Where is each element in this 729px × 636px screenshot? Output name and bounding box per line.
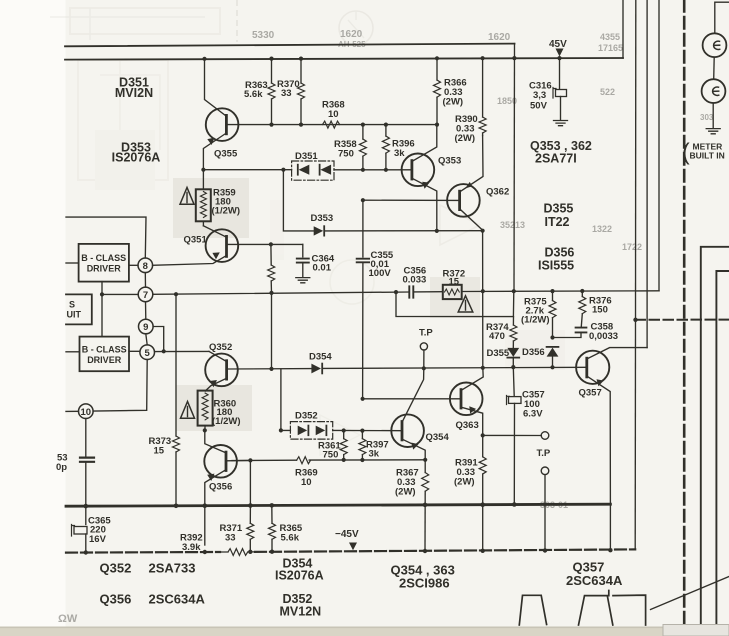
svg-text:−45V: −45V [335,529,359,540]
transistor Q353 [402,154,435,187]
svg-text:Q354: Q354 [426,432,450,443]
transistor Q354 [391,414,424,447]
svg-text:9: 9 [143,322,148,333]
capacitor C364 [302,244,304,256]
resistor R396 [385,125,387,136]
marker patch around R359 [173,178,249,238]
svg-text:(2W): (2W) [455,133,476,144]
svg-text:10: 10 [81,407,92,418]
right frame box outer [701,247,729,636]
svg-text:DRIVER: DRIVER [87,264,122,274]
wire Q362 base y=200.4 [363,199,460,201]
scan bottom-right box [663,625,729,636]
ground below C316 [554,121,568,126]
svg-text:3k: 3k [369,449,380,460]
svg-text:T.P: T.P [537,448,551,459]
wire dashed stub y=319.8 [636,319,729,321]
scan bottom strip [0,628,680,636]
test point T.P (right upper) [541,432,549,440]
diode pair D352 (boxed) [290,422,332,440]
svg-text:D355: D355 [544,202,574,216]
wire pin7 stub left [101,282,103,337]
svg-text:Q363: Q363 [456,420,479,431]
svg-text:(2W): (2W) [443,97,464,108]
wire main row y=368 [228,367,587,369]
svg-text:B - CLASS: B - CLASS [81,253,126,263]
resistor R367 [424,460,426,473]
wire dashed bottom rail [66,549,635,552]
ground below lamps [706,129,720,134]
capacitor C355 [362,200,364,257]
svg-text:4355: 4355 [600,32,620,42]
wire D351 to Q353 [334,169,412,171]
svg-text:B - CLASS: B - CLASS [82,345,127,355]
diode D354 [311,364,321,374]
transistor Q351 [206,229,239,262]
svg-text:1722: 1722 [622,242,642,252]
wire Q356 column below rail [204,506,206,545]
wire vertical x=514.5 from rail1 down to mid rail [513,44,516,292]
wire x=482.6 column down to main row [482,231,484,368]
svg-text:D355: D355 [487,348,510,359]
svg-text:10: 10 [301,477,312,488]
svg-text:D356: D356 [545,246,575,260]
capacitor C316 [559,58,561,88]
wire right column x=647 [646,0,648,348]
capacitor C356 (inline) [409,286,413,297]
svg-text:Q362: Q362 [486,187,509,198]
resistor R397 [361,431,363,439]
wire pin8 riser to top-left [66,217,146,258]
capacitor C358 [576,328,587,333]
svg-text:5330: 5330 [252,30,275,41]
svg-text:Q351: Q351 [184,235,208,246]
wire top rail 1 [65,44,515,47]
wire dashed rail corner up x=635 [634,320,636,550]
node dots on rail2 [202,56,561,61]
node junction below R360 [203,428,207,432]
svg-text:5.6k: 5.6k [244,89,263,100]
pin circle 10 [79,404,94,419]
warning triangle (R359) [180,188,194,205]
svg-text:Q353: Q353 [438,156,461,167]
svg-text:Q352: Q352 [209,342,232,353]
svg-text:470: 470 [489,331,505,342]
svg-text:(2W): (2W) [395,487,416,498]
svg-text:3.9k: 3.9k [182,542,201,553]
wire bottom heavy rail [66,504,610,506]
wire box1 left [66,262,79,264]
dashed separator vertical [683,0,686,626]
45V arrow [556,49,564,57]
wire Q355 base rail y=124.6 [226,124,437,126]
transistor Q355 [206,108,239,141]
svg-text:2SA77I: 2SA77I [535,152,577,166]
svg-text:MV12N: MV12N [280,605,322,619]
wire corner up x=623 [622,0,624,58]
svg-text:Q355: Q355 [214,149,238,160]
resistor R363 [271,59,273,83]
node junction (514.5,58.2) [512,56,516,60]
svg-text:6.3V: 6.3V [523,409,543,420]
svg-text:IS2076A: IS2076A [275,569,324,583]
wire D353 row y=230.9 [283,170,482,231]
svg-text:D353: D353 [311,213,334,224]
wire top rail 2 [65,58,623,60]
svg-text:150: 150 [592,305,608,316]
svg-text:8: 8 [143,261,148,272]
wire pin9 jog [153,327,164,352]
svg-text:D352: D352 [295,411,318,422]
svg-text:2SCI986: 2SCI986 [399,576,450,591]
wire emitter row y=460 [232,459,425,462]
svg-text:0,0033: 0,0033 [589,331,618,342]
svg-text:33: 33 [281,88,292,99]
svg-text:D351: D351 [295,151,318,162]
svg-text:10: 10 [328,109,339,120]
resistor R390 [482,58,484,117]
svg-text:35213: 35213 [500,220,525,230]
svg-text:D356: D356 [522,347,545,358]
resistor R368 (inline) [323,121,340,128]
resistor R359 (boxed) [202,170,204,190]
resistor R376 [581,291,583,297]
svg-text:7: 7 [143,290,148,301]
marker patch around R372 [430,277,480,318]
box B-CLASS DRIVER (upper) [79,244,129,282]
resistor R374 [512,317,514,325]
resistor R392 (inline on dashed rail) [220,549,255,556]
svg-text:15: 15 [154,446,165,457]
resistor R391 [482,435,484,456]
svg-text:Q357: Q357 [579,388,602,399]
wire pin8 row [129,264,138,266]
diode D356 [547,346,559,348]
resistor R364 [270,244,272,265]
test point T.P (upper) [420,343,427,350]
wire T.P row y=435.4 [483,434,542,436]
wire bypass loop under C356/R372 [396,291,514,316]
wire rail end drop [609,504,611,550]
resistor R366 [436,58,438,80]
resistor R370 [300,59,302,83]
resistor R358 [362,125,364,139]
-45V arrow [349,543,357,551]
svg-text:45V: 45V [549,39,567,50]
wire pin5 row [129,350,209,352]
resistor R365 [271,505,273,523]
diode D353 [314,226,324,235]
svg-text:(1/2W): (1/2W) [521,315,550,326]
wire pin10 row [66,410,79,412]
svg-text:17165: 17165 [598,43,623,53]
wire pin ladder verticals [93,273,147,412]
wire D351 row y=169.7 [203,169,291,171]
resistor R360 (boxed) [198,391,213,426]
svg-text:750: 750 [338,149,354,160]
svg-text:ΩW: ΩW [58,613,78,625]
svg-text:2SA733: 2SA733 [149,561,196,576]
wire Q363 base row y=398.8 [363,398,461,400]
lamp PL2 [702,79,726,103]
warning triangle (R372) [458,296,473,312]
svg-text:2SC634A: 2SC634A [566,573,623,588]
capacitor C365 [85,506,87,524]
wire right column x=659 [658,0,660,291]
wire mid rail (pin7 net) [102,292,409,294]
transistor Q362 [447,184,480,217]
svg-text:ISI555: ISI555 [538,259,574,273]
svg-text:100V: 100V [369,268,392,279]
ghost bleed-through shapes (decorative) [70,8,220,34]
svg-text:(2W): (2W) [454,477,475,488]
svg-text:2SC634A: 2SC634A [149,592,206,607]
svg-text:15: 15 [449,276,460,287]
svg-text:750: 750 [323,450,339,461]
pointer line [651,577,729,610]
svg-text:0.033: 0.033 [403,275,427,286]
test point T.P (right lower) [541,467,549,475]
wire right column x=635.8 upper [635,0,637,320]
wire R363 bus x=271.5 (mid segments) [271,293,273,369]
box B-CLASS DRIVER (lower) [80,337,130,372]
svg-text:3,3: 3,3 [533,90,546,101]
wire D352 row y=430.5 [281,369,402,431]
svg-text:MVI2N: MVI2N [115,86,153,100]
ghost dashed line top [236,0,238,42]
svg-text:1322: 1322 [592,224,612,234]
transistor Q352 [205,354,238,387]
capacitor C357 [512,367,515,396]
svg-text:DRIVER: DRIVER [87,355,122,365]
capacitor C353 (clipped) [85,419,87,457]
svg-text:T.P: T.P [419,328,433,339]
left white margin [0,0,66,636]
right frame box inner [716,271,729,636]
svg-text:522: 522 [600,87,615,97]
svg-text:0p: 0p [56,462,67,473]
svg-text:Q356: Q356 [100,592,132,607]
svg-text:IT22: IT22 [545,215,570,229]
transistor Q363 [450,383,483,416]
svg-text:UIT: UIT [67,310,82,320]
diode D355 [507,348,519,357]
pin circle 8 [138,258,153,273]
lamp PL1 [715,2,729,33]
transistor Q357 [576,351,609,384]
svg-text:303: 303 [700,113,714,122]
comb connector bottom [519,595,546,625]
pin circle 5 [140,345,155,360]
svg-text:50V: 50V [530,101,548,112]
warning triangle (R360) [181,402,195,419]
svg-text:5.6k: 5.6k [281,533,300,544]
svg-text:3k: 3k [394,148,405,159]
svg-text:5: 5 [145,348,151,359]
resistor R371 [249,460,251,523]
wire Q351 base y=244.4 [227,243,303,245]
diode pair D351 (boxed) [292,161,334,180]
resistor R369 (inline) [297,457,311,464]
svg-text:IS2076A: IS2076A [112,151,161,165]
resistor R372 (boxed, inline) [443,285,462,299]
marker patch around R360 [176,385,252,431]
svg-text:16V: 16V [89,534,107,545]
svg-text:0.01: 0.01 [313,263,332,274]
svg-text:Q356: Q356 [209,482,232,493]
pin circle 9 [139,319,154,334]
svg-text:33: 33 [225,533,236,544]
resistor R375 [552,291,554,300]
svg-text:D354: D354 [309,352,332,363]
svg-text:1620: 1620 [488,32,511,43]
ground below C364 [296,278,310,283]
svg-text:BUILT IN: BUILT IN [690,151,725,161]
node dots on y=124.6 [269,123,439,127]
resistor R361 [343,431,345,439]
transistor Q356 [204,445,237,478]
svg-text:1620: 1620 [340,29,363,40]
wire box2 left [66,351,80,353]
svg-text:(1/2W): (1/2W) [212,206,241,217]
svg-text:S: S [69,300,75,310]
pin circle 7 [138,287,153,302]
svg-text:(1/2W): (1/2W) [212,416,241,427]
svg-text:Q352: Q352 [100,561,132,576]
box bias circuit (clipped) [66,294,92,324]
resistor R373 [175,294,177,436]
